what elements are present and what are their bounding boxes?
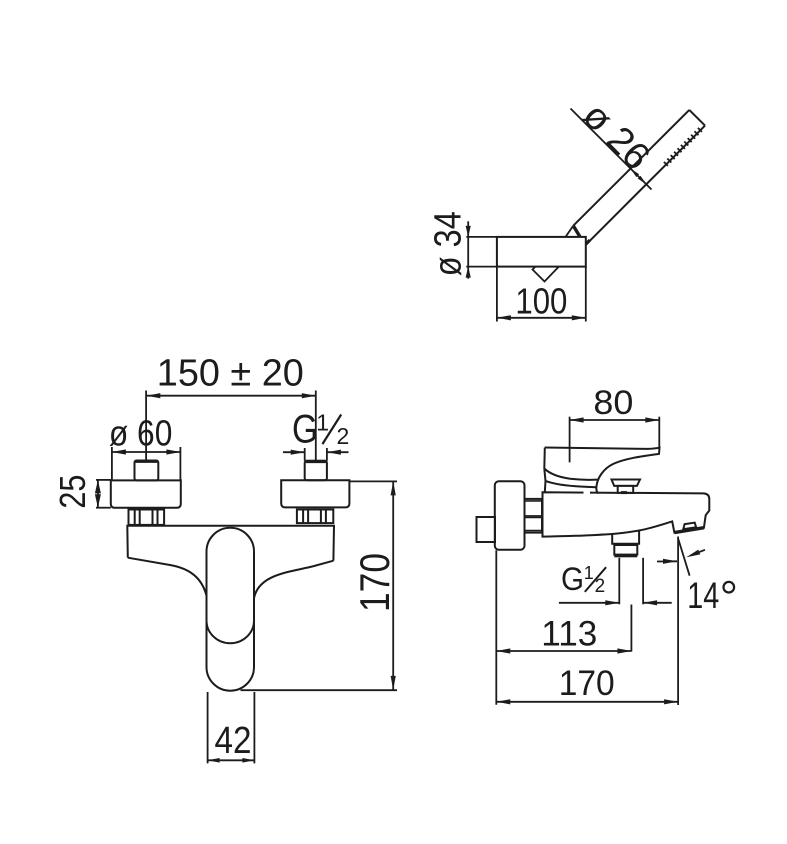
arrowhead 100 left [497,315,511,320]
arrowhead 80 left [570,417,584,422]
wand junction cone line [566,226,574,237]
dimension 170 front: reference line top [350,480,397,482]
lever handle side [545,448,660,494]
arrowhead 25 top [95,480,101,494]
hex nut side [525,499,543,533]
dimension line 150±20 [146,395,315,397]
arrowhead ø26 upper [631,169,640,178]
arrowhead ø60 left [112,449,126,454]
shower handle wand lower edge [586,126,705,245]
cartridge cap trapezoid [612,480,641,486]
dimension line 25 [97,480,99,508]
svg-text:1: 1 [584,563,594,583]
dimension line ø60 [112,451,180,453]
arrowhead 42 left [208,758,220,763]
svg-text:G: G [292,408,318,452]
mixer body spout stadium outline [207,528,255,691]
arrowhead G1/2 front left [291,450,305,455]
G1/2 side right arrow tail [643,602,672,604]
arrowhead ø34 top [466,226,471,237]
arrowhead 113 right [617,648,631,653]
left pipe stub bold top [136,460,158,463]
svg-text:80: 80 [593,384,633,422]
cartridge cap lower block [618,486,634,493]
arrowhead G1/2 side right [643,600,657,605]
body bar bottom right edge with fillet [254,561,333,598]
svg-text:150 ± 20: 150 ± 20 [157,353,304,395]
diverter knob bold bottom band [614,555,637,558]
svg-text:170: 170 [351,553,398,612]
arrowhead 14 right [686,550,700,558]
arrowhead 170 side right [664,699,678,704]
dimension ø34 extension line top [466,236,497,238]
svg-text:170: 170 [559,664,615,703]
14 degree left arrow tail [657,560,677,562]
hex nut side facet lines [525,500,543,502]
arrowhead 80 right [645,417,659,422]
G1/2 front right arrow tail [327,451,349,453]
arrowhead 14 left [663,559,677,564]
arrowhead 150 right [302,393,316,398]
dome front face [544,469,545,481]
arrowhead 25 bottom [95,494,101,508]
arrowhead 170 front top [391,481,396,495]
cartridge cap bold foot [621,491,627,494]
shower handle wand end face [689,110,705,126]
arrowhead 113 left [496,648,510,653]
slash of G1/2 side [585,567,606,592]
dimension G1/2 front: extension stubs [304,448,306,461]
slash of G1/2 front [322,415,341,445]
diverter knob wide part [612,530,639,544]
svg-text:113: 113 [541,615,597,654]
dimension line 80 [570,419,660,421]
svg-text:G: G [561,561,584,597]
body top bar left part [127,526,334,561]
dimension 25 extension top [96,479,111,481]
body top edge gap (white) [584,491,591,495]
wall flange side [495,481,525,549]
shower head body rectangle [497,237,586,267]
arrowhead ø26 lower [638,176,647,185]
dimension G1/2 side extension left [618,558,620,605]
mixer body side outline [543,492,710,536]
arrowhead G1/2 front right [327,450,341,455]
dimension line 170 side [496,701,678,703]
dimension 42 extension left [207,692,209,763]
spray direction diamond under shower head [533,256,559,282]
aerator window bold bottom [683,528,696,530]
arrowhead 170 front bottom [391,676,396,690]
degree symbol circle [724,582,735,593]
dimension 170 side extension right (from aerator) [677,537,679,706]
svg-text:100: 100 [515,281,567,322]
G1/2 front left arrow tail [283,451,305,453]
left wall flange [111,480,181,507]
dimension line 170 front [392,481,394,690]
dimension 80 extension right [658,417,660,448]
dimension 80 extension left [569,417,571,463]
left hex nut facet lines [134,510,136,525]
dimension line 100 [497,317,586,319]
diverter knob joint line [614,544,637,546]
label G 1/2 front [292,408,349,452]
dimension 113/170 wall extension line [495,550,497,705]
right wall flange [281,480,349,507]
handle capsule bottom arc [207,621,255,644]
dimension 113 extension right [630,605,632,652]
14 degree right arrow tail [699,550,705,552]
body bar bottom left edge with fillet [128,558,207,596]
right hex nut facet lines [302,510,304,524]
dimension 100 extension line right [585,267,587,322]
dimension line ø26 [571,109,652,190]
wall pipe stub side [477,517,496,542]
arrowhead 42 right [242,758,254,763]
dimension 150±20 extension left [145,391,147,461]
dimension 42 extension right [253,692,255,763]
grip ticks on wand [664,128,702,166]
arrowhead 170 side left [496,699,510,704]
wand junction thick tick lower [586,240,590,244]
dimension 170 front: reference line bottom [241,689,398,691]
dimension line ø34 vertical [467,221,469,278]
arrowhead G1/2 side left [605,600,619,605]
dimension ø60 extension right [179,447,181,480]
svg-text:ø 60: ø 60 [109,412,173,453]
lever left face [543,448,546,469]
svg-text:1: 1 [316,410,329,436]
dimension 100 extension line left [496,267,498,322]
dimension 25 extension bottom [96,507,111,509]
arrowhead 100 right [572,315,586,320]
arrowhead ø60 right [166,449,180,454]
left hex nut [129,510,165,525]
right hex nut [297,510,333,524]
svg-text:ø 26: ø 26 [575,94,659,178]
lever nose bottom curve [544,469,597,480]
wand junction thick end face [573,226,580,237]
right pipe stub [305,461,327,481]
svg-text:14: 14 [687,575,719,616]
dimension line 42 [208,759,255,761]
dimension line 113 [496,650,631,652]
dimension ø60 extension left [111,447,113,480]
shower handle wand upper edge [573,110,689,226]
dimension ø34 extension line bottom [466,266,497,268]
right pipe stub bold top [306,460,326,463]
aerator window [683,523,696,530]
14 degree tilted face line [678,538,690,575]
left pipe stub [135,461,159,481]
diverter knob narrow part [614,545,637,555]
dimension 150±20 extension right [315,391,317,461]
arrowhead ø34 bottom [466,267,471,278]
svg-text:25: 25 [52,475,93,509]
dimension G1/2 side extension right [642,558,644,605]
aerator cap bold bottom edge [674,528,704,533]
svg-text:42: 42 [215,720,252,762]
dome top curve [546,481,597,487]
arrowhead 150 left [146,393,160,398]
svg-text:2: 2 [337,423,350,449]
G1/2 side left arrow tail [559,602,619,604]
label G 1/2 side [561,561,605,597]
svg-text:ø 34: ø 34 [427,211,469,276]
